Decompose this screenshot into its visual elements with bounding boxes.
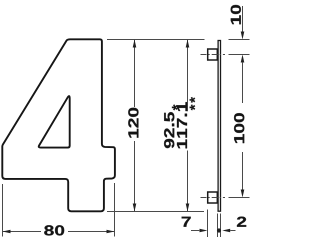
extension line bottom bolt axis right — [229, 197, 250, 199]
footnote stars for 117.1** — [190, 97, 196, 103]
dimension 7 line — [191, 230, 199, 232]
arrow 100 top — [241, 55, 245, 63]
dimension 120 line lower segment — [134, 141, 136, 212]
dimension text 117.1** — [177, 102, 187, 148]
dimension text 92.5* — [164, 112, 174, 148]
arrow 120 bottom — [133, 204, 137, 212]
dot marker plate left face — [217, 228, 221, 232]
extension line plate right face — [220, 214, 222, 238]
arrow 120 top — [133, 40, 137, 48]
dimension 2 line — [230, 230, 235, 232]
arrow 80 right — [107, 230, 115, 234]
dimension 80 line right segment — [68, 231, 115, 233]
dimension text 10 — [231, 5, 241, 24]
dimension text 100 — [234, 113, 244, 143]
numeral 4 outer contour — [2, 39, 115, 211]
80 dimension left extension line — [2, 184, 4, 237]
top extension line right of plate — [229, 39, 250, 41]
center line top bolt — [201, 54, 226, 56]
dimension 100 line upper segment — [242, 62, 244, 103]
arrow 80 left — [3, 230, 11, 234]
top standoff — [208, 49, 218, 60]
arrow 7 right — [200, 229, 208, 233]
dimension 80 line left segment — [3, 231, 42, 233]
dimension 10 line — [242, 6, 244, 33]
arrow 2 left — [222, 229, 230, 233]
dimension 120 line — [134, 40, 136, 108]
plate side view — [218, 41, 220, 212]
dimension text 80 — [44, 225, 64, 235]
dimension text 2 — [237, 217, 246, 227]
dimension text 7 — [182, 217, 191, 227]
extension line standoff left face — [207, 210, 209, 238]
extension line plate left face — [217, 214, 219, 238]
center line bottom bolt — [201, 197, 226, 199]
dimension text 120 — [128, 108, 138, 138]
footnote star for 92.5* — [172, 105, 178, 111]
top extension line — [107, 39, 205, 41]
numeral 4 counter triangle — [39, 96, 70, 147]
bottom extension line — [107, 211, 204, 213]
arrow 10 down — [241, 32, 245, 40]
80 dimension right extension line — [114, 183, 116, 237]
extension line top bolt axis right — [229, 54, 250, 56]
dimension 92.5*/117.1** line — [187, 40, 189, 112]
bottom standoff — [208, 192, 218, 203]
dimension 100 line lower segment — [242, 152, 244, 190]
arrow 100 bottom — [241, 190, 245, 198]
arrow 92.5/117.1 top — [186, 40, 190, 48]
arrow 92.5/117.1 bottom — [186, 204, 190, 212]
dimension 92.5*/117.1** line lower segment — [187, 151, 189, 212]
